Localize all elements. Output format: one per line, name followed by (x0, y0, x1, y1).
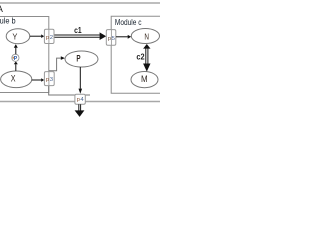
svg-text:P: P (76, 53, 80, 63)
svg-text:A: A (0, 4, 3, 14)
svg-text:P: P (14, 56, 18, 62)
svg-text:ule b: ule b (0, 15, 16, 25)
connector c1 arrowhead (100, 32, 107, 40)
outer box A top border (0, 2, 160, 4)
arrow p5 to N (116, 36, 128, 38)
outer box A bottom border (0, 101, 160, 103)
ellipse M (131, 72, 158, 88)
svg-text:c2: c2 (136, 51, 144, 61)
arrow icon up to Y (15, 48, 17, 55)
interface icon circle-P (12, 54, 19, 61)
arrowhead into P (61, 56, 65, 60)
svg-text:Module c: Module c (115, 17, 142, 27)
port p3 (44, 72, 54, 86)
arrow X up to interface icon (15, 64, 17, 71)
connector c2 top arrowhead (143, 44, 150, 49)
arrow Y to p2 (30, 35, 42, 37)
thick output arrow below p4 (78, 104, 80, 110)
svg-text:c1: c1 (74, 25, 82, 35)
svg-text:X: X (11, 74, 16, 84)
ellipse Y (6, 29, 30, 44)
connector c2 double line (145, 48, 147, 63)
wire p3 to P (49, 58, 61, 71)
port p4 (75, 94, 85, 104)
connector c2 bottom arrowhead (143, 64, 150, 72)
svg-text:M: M (141, 74, 148, 84)
ellipse N (131, 29, 159, 44)
ellipse P (65, 51, 98, 67)
svg-text:2: 2 (50, 35, 53, 41)
wire p3 to p4 (passes behind p4, stub visible at right) (49, 86, 90, 95)
port p2 (44, 29, 54, 43)
svg-text:N: N (144, 32, 149, 42)
connector c1 double line (54, 34, 99, 36)
arrow P down to p4 (79, 67, 81, 89)
module b box (cropped at left edge) (0, 17, 49, 93)
module c box (cropped at right edge) (111, 16, 160, 93)
svg-text:Y: Y (12, 32, 17, 42)
ellipse X (1, 71, 32, 88)
port p5 (106, 30, 116, 46)
arrow X to p3 (32, 79, 42, 81)
